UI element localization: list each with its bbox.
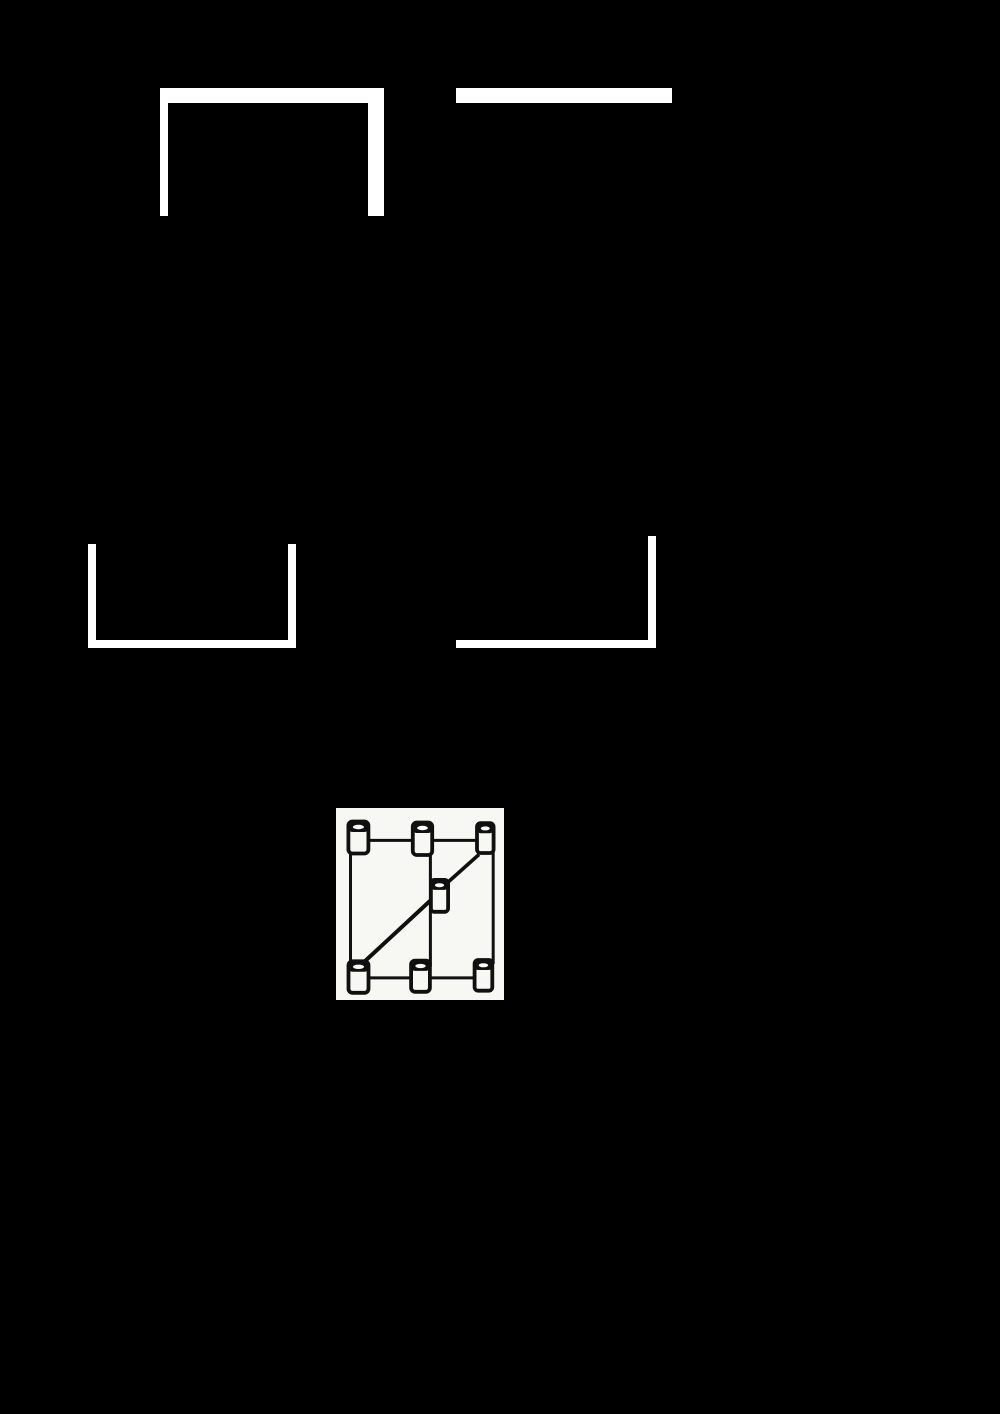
bracket mid-right: bottom bar [456,640,656,648]
wire right vertical [492,846,495,964]
wire middle vertical [429,846,432,966]
cylinder top-right [477,823,494,853]
diagonal brace upper-right [446,854,478,883]
bracket mid-left: bottom bar [88,640,296,648]
bracket mid-left: right leg [288,544,296,648]
figure panel [336,808,504,1000]
cylinder top-left [348,821,368,853]
wire left vertical [349,844,352,968]
cylinder bottom-middle [411,960,430,991]
wire bottom horizontal [356,976,485,979]
wire top horizontal [356,838,487,841]
cylinder top-middle [413,822,432,854]
bracket mid-left: left leg [88,544,96,648]
diagonal brace lower-left [363,900,430,962]
bracket top-left: right leg [368,88,384,216]
bracket top-left: left leg [160,88,168,216]
cylinder bottom-right [475,960,493,991]
bracket top-left: top bar [160,88,384,104]
bar top-right [456,88,672,104]
cylinder bottom-left [349,961,369,992]
cylinder middle [431,879,448,911]
bracket mid-right: right leg [648,536,656,648]
